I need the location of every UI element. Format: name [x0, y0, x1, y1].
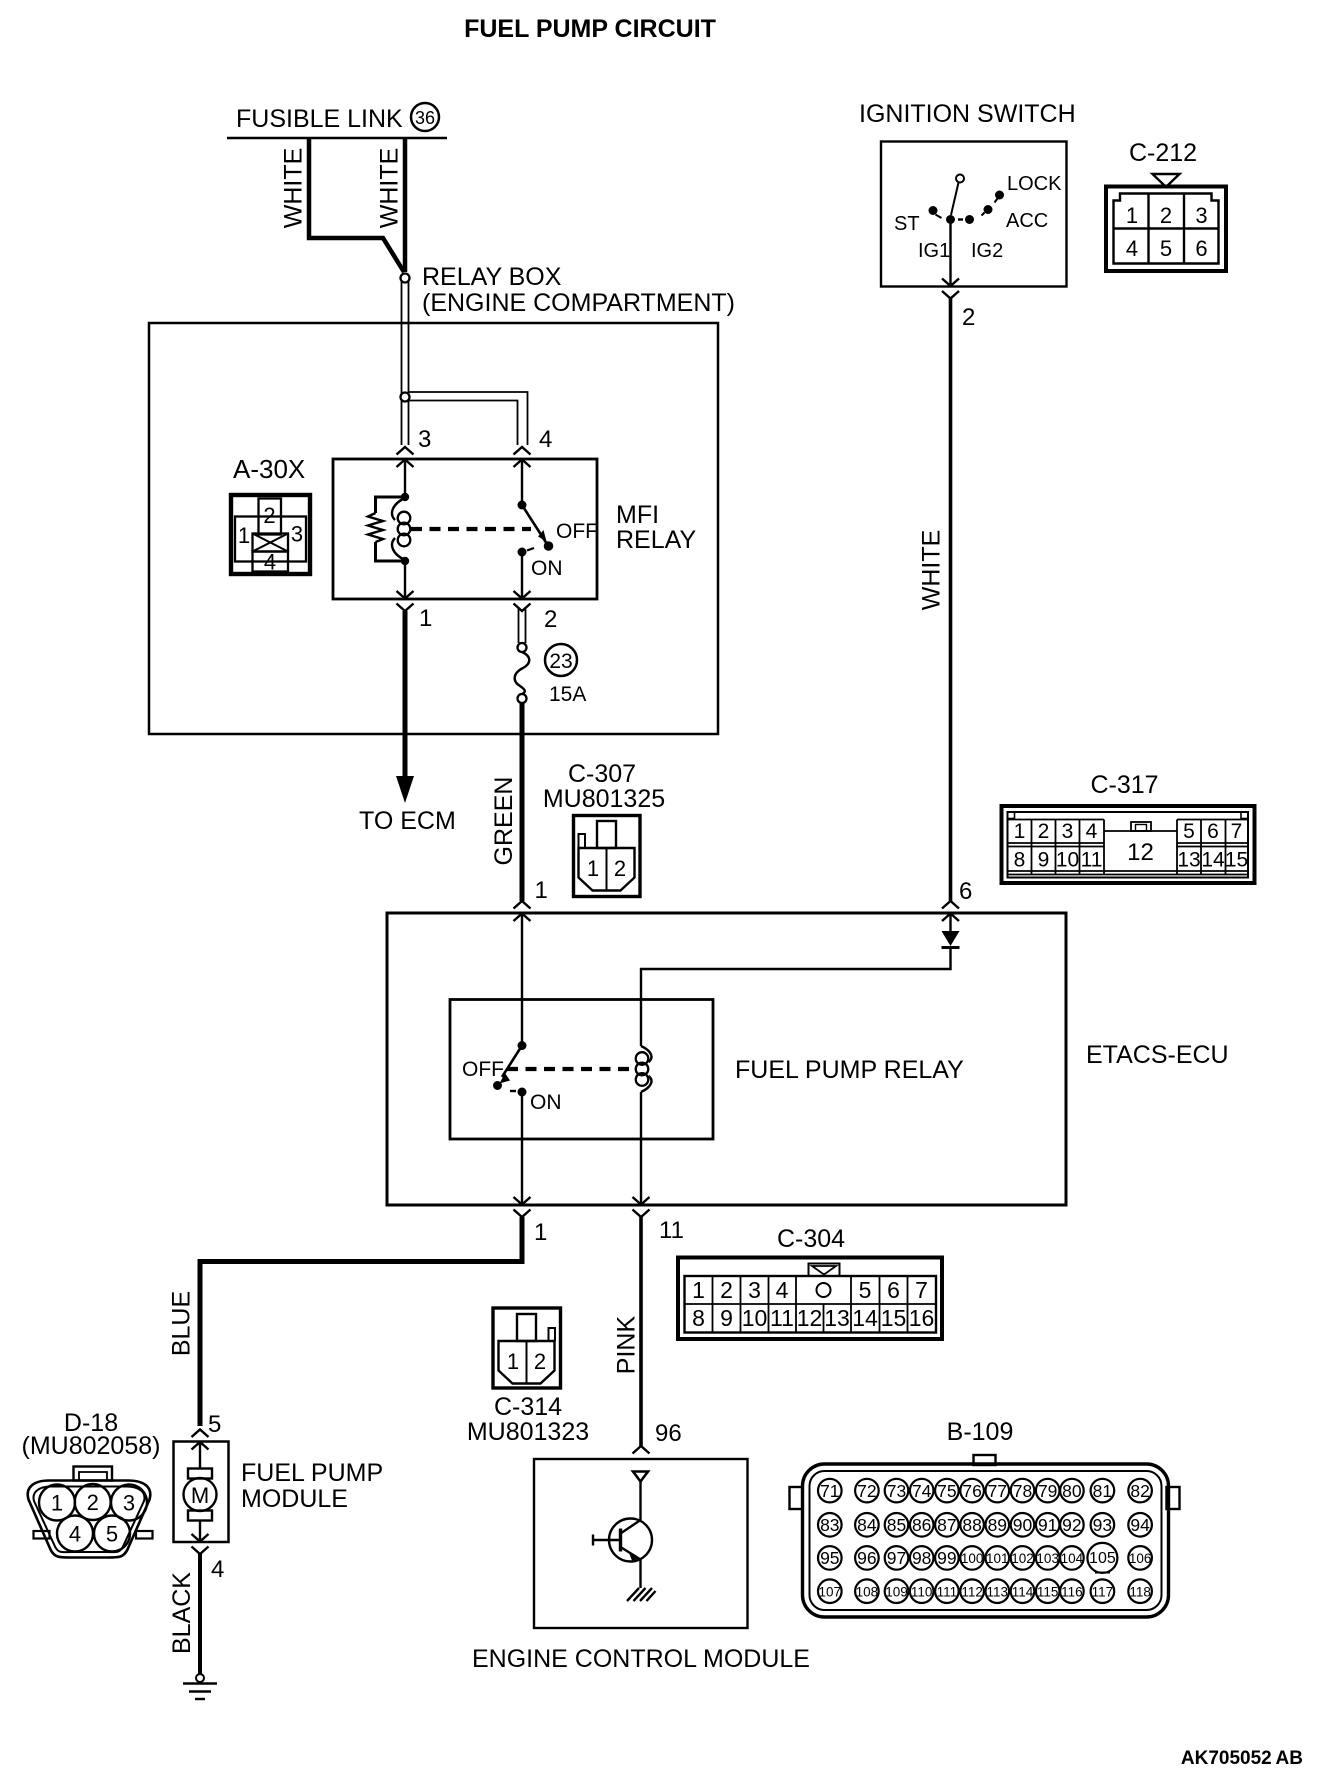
svg-text:4: 4 — [264, 550, 276, 575]
svg-text:BLUE: BLUE — [168, 1291, 196, 1356]
svg-text:ST: ST — [894, 213, 920, 235]
svg-text:AK705052 AB: AK705052 AB — [1181, 1748, 1303, 1769]
svg-text:C-317: C-317 — [1090, 771, 1158, 799]
svg-text:117: 117 — [1092, 1584, 1114, 1599]
svg-text:12: 12 — [797, 1305, 823, 1331]
svg-text:OFF: OFF — [556, 520, 598, 543]
fuse number 23 — [545, 644, 577, 676]
B-109 pin 93 — [1091, 1513, 1115, 1537]
svg-text:RELAY: RELAY — [616, 526, 696, 554]
svg-text:102: 102 — [1011, 1551, 1034, 1566]
svg-text:IG1: IG1 — [918, 240, 950, 262]
wire diode to relay coil — [641, 948, 951, 1001]
C-304 cell grid — [685, 1303, 937, 1305]
node junction circle — [401, 274, 410, 283]
svg-text:ACC: ACC — [1006, 210, 1048, 232]
svg-text:73: 73 — [887, 1481, 906, 1501]
pin 4 arrow — [514, 447, 531, 467]
svg-text:23: 23 — [549, 650, 572, 673]
svg-text:100: 100 — [961, 1551, 984, 1566]
B-109 pin 73 — [885, 1479, 909, 1503]
internal ground symbol — [627, 1588, 656, 1601]
svg-text:A-30X: A-30X — [233, 454, 305, 484]
svg-text:ETACS-ECU: ETACS-ECU — [1086, 1041, 1229, 1069]
svg-text:105: 105 — [1089, 1550, 1116, 1567]
B-109 pin 88 — [960, 1513, 984, 1537]
svg-text:14: 14 — [852, 1305, 878, 1331]
svg-text:1: 1 — [587, 856, 599, 881]
svg-text:6: 6 — [1195, 236, 1207, 261]
svg-text:13: 13 — [824, 1305, 850, 1331]
svg-text:76: 76 — [962, 1481, 981, 1501]
svg-text:77: 77 — [988, 1481, 1007, 1501]
svg-text:3: 3 — [123, 1491, 135, 1516]
ST contact dot — [929, 206, 938, 215]
svg-text:9: 9 — [1038, 849, 1050, 872]
svg-text:10: 10 — [742, 1305, 768, 1331]
svg-text:2: 2 — [962, 304, 975, 331]
svg-text:4: 4 — [69, 1522, 81, 1547]
svg-text:1: 1 — [1126, 203, 1138, 228]
svg-text:103: 103 — [1036, 1551, 1059, 1566]
svg-text:95: 95 — [820, 1548, 839, 1568]
B-109 pin 90 — [1011, 1513, 1035, 1537]
svg-text:89: 89 — [988, 1515, 1007, 1535]
svg-text:104: 104 — [1061, 1551, 1084, 1566]
D-18 pin circles — [39, 1485, 75, 1521]
connector C-212 symbol — [1106, 187, 1226, 272]
svg-text:1: 1 — [507, 1349, 519, 1374]
svg-text:112: 112 — [961, 1584, 983, 1599]
svg-text:4: 4 — [211, 1556, 224, 1583]
svg-text:WHITE: WHITE — [376, 148, 404, 229]
svg-text:96: 96 — [857, 1548, 876, 1568]
svg-text:13: 13 — [1177, 849, 1200, 872]
svg-text:RELAY BOX: RELAY BOX — [422, 263, 562, 291]
relay coil K1 — [640, 1000, 642, 1046]
coil wire bottom — [404, 561, 406, 598]
svg-text:7: 7 — [915, 1277, 928, 1303]
C-304 keying tab — [809, 1264, 840, 1277]
svg-text:8: 8 — [1014, 849, 1026, 872]
svg-text:98: 98 — [912, 1548, 931, 1568]
B-109 pin 108 — [855, 1579, 879, 1603]
svg-text:9: 9 — [720, 1305, 733, 1331]
B-109 pin 110 — [910, 1579, 934, 1603]
transistor Q1 — [609, 1519, 652, 1562]
svg-text:106: 106 — [1129, 1551, 1152, 1566]
B-109 pin 82 — [1128, 1479, 1152, 1503]
C-317 middle cell 12 — [1104, 830, 1177, 832]
svg-text:11: 11 — [659, 1217, 684, 1244]
B-109 pin 71 — [818, 1479, 842, 1503]
resistor R parallel — [376, 497, 406, 513]
svg-text:8: 8 — [692, 1305, 705, 1331]
svg-text:75: 75 — [937, 1481, 956, 1501]
connector C-317 symbol — [1002, 806, 1255, 883]
svg-text:118: 118 — [1129, 1584, 1151, 1599]
B-109 pin 106 — [1128, 1546, 1152, 1570]
wire BLACK — [198, 1554, 202, 1674]
B-109 pin 96 — [855, 1546, 879, 1570]
connector C-307 symbol — [574, 816, 641, 897]
B-109 pin 115 — [1036, 1579, 1060, 1603]
key blade — [951, 183, 959, 216]
B-109 pin 100 — [960, 1546, 984, 1570]
svg-text:MODULE: MODULE — [241, 1485, 348, 1513]
svg-text:88: 88 — [962, 1515, 981, 1535]
C-317 left pin block — [1008, 820, 1249, 875]
svg-text:71: 71 — [820, 1481, 839, 1501]
wire BLUE — [200, 1217, 522, 1426]
relay coil — [392, 498, 405, 560]
svg-text:ON: ON — [530, 1091, 562, 1114]
B-109 pin 87 — [935, 1513, 959, 1537]
emitter wire — [639, 1560, 641, 1589]
svg-text:MU801325: MU801325 — [543, 785, 665, 813]
fuel pump relay box — [450, 1000, 713, 1140]
svg-text:7: 7 — [1231, 820, 1243, 843]
coil bottom junction dot — [401, 557, 409, 565]
switch wire from pin 1 — [521, 915, 523, 1045]
svg-text:1: 1 — [51, 1491, 63, 1516]
B-109 pin 95 — [818, 1546, 842, 1570]
B-109 pin 91 — [1036, 1513, 1060, 1537]
B-109 pin 107 — [818, 1579, 842, 1603]
svg-text:2: 2 — [87, 1490, 99, 1515]
ON contact dot — [518, 1088, 527, 1097]
fuse bottom terminal circle — [518, 694, 527, 703]
svg-text:(ENGINE COMPARTMENT): (ENGINE COMPARTMENT) — [422, 289, 735, 317]
pin 2 arrow — [514, 591, 531, 611]
svg-text:WHITE: WHITE — [280, 148, 308, 229]
svg-text:115: 115 — [1037, 1584, 1059, 1599]
B-109 pin 89 — [986, 1513, 1010, 1537]
ignition switch box — [881, 142, 1067, 287]
svg-text:4: 4 — [1086, 820, 1098, 843]
svg-text:91: 91 — [1038, 1515, 1057, 1535]
FPM pin 5 arrow — [192, 1430, 209, 1450]
svg-text:6: 6 — [887, 1277, 900, 1303]
B-109 pin 72 — [855, 1479, 879, 1503]
svg-text:ON: ON — [531, 557, 563, 580]
svg-text:16: 16 — [909, 1305, 935, 1331]
svg-text:110: 110 — [911, 1584, 933, 1599]
switch blade with arrow — [502, 1046, 522, 1078]
B-109 pin 114 — [1011, 1579, 1035, 1603]
svg-text:116: 116 — [1061, 1584, 1083, 1599]
svg-text:5: 5 — [208, 1411, 221, 1438]
ECM pin 96 arrow — [633, 1446, 650, 1454]
B-109 pin 105 — [1087, 1543, 1117, 1573]
B-109 pin 118 — [1128, 1579, 1152, 1603]
B-109 pin 78 — [1011, 1479, 1035, 1503]
svg-text:(MU802058): (MU802058) — [22, 1432, 161, 1460]
switch ON contact dot — [518, 548, 527, 557]
svg-text:5: 5 — [106, 1522, 118, 1547]
LOCK contact dot — [995, 191, 1004, 200]
svg-text:92: 92 — [1062, 1515, 1081, 1535]
wire MFI pin1 to ECM — [403, 611, 408, 777]
switch top contact dot — [518, 1041, 527, 1050]
B-109 pin 92 — [1060, 1513, 1084, 1537]
fusible link bus line — [227, 137, 447, 140]
B-109 pin 74 — [910, 1479, 934, 1503]
svg-text:109: 109 — [885, 1584, 908, 1599]
B-109 pin 104 — [1060, 1546, 1084, 1570]
svg-text:1: 1 — [238, 523, 250, 548]
svg-text:5: 5 — [1160, 236, 1172, 261]
svg-text:94: 94 — [1130, 1515, 1150, 1535]
svg-text:OFF: OFF — [462, 1058, 504, 1081]
B-109 pin 111 — [935, 1579, 959, 1603]
svg-text:M: M — [191, 1483, 209, 1508]
svg-text:5: 5 — [859, 1277, 872, 1303]
svg-text:MU801323: MU801323 — [467, 1418, 589, 1446]
svg-text:111: 111 — [937, 1584, 958, 1599]
relay box (engine compartment) — [149, 323, 718, 734]
svg-text:1: 1 — [419, 605, 432, 632]
B-109 pin 97 — [885, 1546, 909, 1570]
B-109 pin 75 — [935, 1479, 959, 1503]
connector D-18 symbol — [74, 1467, 113, 1481]
svg-text:12: 12 — [1127, 839, 1154, 866]
svg-text:78: 78 — [1013, 1481, 1032, 1501]
B-109 mark under pin 105 — [1095, 1572, 1110, 1574]
motor M symbol — [199, 1442, 201, 1468]
pin 1 arrow — [397, 591, 414, 611]
C-317 right pin block — [1177, 820, 1248, 847]
svg-text:86: 86 — [912, 1515, 931, 1535]
ETACS pin 11 bottom arrow — [633, 1197, 650, 1217]
wire double-line from node to pin 3 — [401, 282, 403, 445]
svg-text:11: 11 — [770, 1305, 794, 1331]
svg-text:C-212: C-212 — [1129, 139, 1197, 167]
B-109 pin 101 — [986, 1546, 1010, 1570]
internal supply triangle — [633, 1472, 648, 1482]
svg-text:3: 3 — [1195, 203, 1207, 228]
B-109 pin 80 — [1060, 1479, 1084, 1503]
pin 3 arrow — [397, 447, 414, 467]
wire to transistor — [639, 1482, 641, 1521]
B-109 pin 112 — [960, 1579, 984, 1603]
svg-text:2: 2 — [720, 1277, 733, 1303]
svg-text:80: 80 — [1062, 1481, 1082, 1501]
svg-text:WHITE: WHITE — [918, 530, 946, 611]
svg-text:10: 10 — [1056, 849, 1079, 872]
B-109 pin 76 — [960, 1479, 984, 1503]
switch wire top — [521, 460, 523, 505]
svg-text:15A: 15A — [549, 683, 586, 706]
B-109 pin 83 — [818, 1513, 842, 1537]
wire white right — [403, 138, 408, 272]
B-109 pin 117 — [1091, 1579, 1115, 1603]
B-109 pin 94 — [1128, 1513, 1152, 1537]
B-109 pin 102 — [1011, 1546, 1035, 1570]
svg-text:113: 113 — [987, 1584, 1009, 1599]
svg-text:6: 6 — [959, 878, 972, 905]
switch wire bottom — [521, 552, 523, 598]
connector A-30X symbol — [231, 495, 310, 574]
svg-text:2: 2 — [614, 856, 626, 881]
svg-text:B-109: B-109 — [947, 1418, 1014, 1446]
svg-text:C-314: C-314 — [494, 1393, 562, 1421]
ETACS pin 1 arrow — [514, 901, 531, 921]
svg-text:36: 36 — [415, 108, 435, 128]
svg-text:107: 107 — [819, 1584, 842, 1599]
connector C-304 symbol — [678, 1258, 942, 1340]
fuse top terminal circle — [518, 643, 527, 652]
svg-text:114: 114 — [1012, 1584, 1034, 1599]
svg-text:4: 4 — [776, 1277, 789, 1303]
svg-text:FUEL PUMP: FUEL PUMP — [241, 1459, 383, 1487]
svg-text:3: 3 — [1062, 820, 1074, 843]
ACC contact dot — [984, 205, 993, 214]
coil wire top — [404, 460, 406, 497]
C-212 triangle mark — [1153, 174, 1180, 187]
B-109 pin 84 — [855, 1513, 879, 1537]
wire PINK — [639, 1217, 643, 1446]
svg-text:2: 2 — [534, 1349, 546, 1374]
svg-text:ENGINE CONTROL MODULE: ENGINE CONTROL MODULE — [472, 1645, 810, 1673]
B-109 pin 86 — [910, 1513, 934, 1537]
svg-text:3: 3 — [418, 426, 431, 453]
wire WHITE ignition to ETACS — [949, 297, 953, 901]
switch blade — [522, 505, 547, 544]
engine control module box — [534, 1459, 748, 1628]
coil top junction dot — [401, 493, 409, 501]
dashed link line — [507, 1067, 630, 1071]
switch output wire — [949, 220, 951, 285]
svg-text:79: 79 — [1038, 1481, 1057, 1501]
connector C-314 symbol — [493, 1308, 561, 1388]
svg-text:1: 1 — [534, 1219, 547, 1246]
svg-text:99: 99 — [937, 1548, 956, 1568]
fuel pump module box — [174, 1442, 229, 1543]
wire double-line branch to pin 4 — [409, 392, 528, 445]
svg-text:81: 81 — [1093, 1481, 1112, 1501]
svg-text:1: 1 — [535, 877, 548, 904]
svg-text:11: 11 — [1081, 849, 1103, 872]
key pivot circle — [956, 175, 964, 183]
svg-text:84: 84 — [857, 1515, 877, 1535]
svg-text:15: 15 — [1225, 849, 1248, 872]
svg-text:15: 15 — [881, 1305, 907, 1331]
svg-text:101: 101 — [986, 1551, 1009, 1566]
IG2 contact dot — [965, 215, 974, 224]
ground symbol — [183, 1682, 217, 1684]
fusible link number 36 — [411, 103, 439, 131]
svg-text:83: 83 — [820, 1515, 839, 1535]
B-109 pin 98 — [910, 1546, 934, 1570]
common contact dot — [946, 215, 955, 224]
B-109 pin 81 — [1091, 1479, 1115, 1503]
wire GREEN — [520, 703, 525, 901]
svg-text:TO ECM: TO ECM — [359, 807, 456, 835]
connector B-109 symbol — [974, 1455, 996, 1465]
switch wire bottom — [521, 1092, 523, 1204]
svg-text:3: 3 — [748, 1277, 761, 1303]
svg-text:87: 87 — [937, 1515, 956, 1535]
svg-text:82: 82 — [1130, 1481, 1149, 1501]
fuse element squiggle — [515, 652, 530, 694]
svg-text:1: 1 — [1014, 820, 1026, 843]
svg-text:GREEN: GREEN — [490, 777, 518, 866]
svg-text:2: 2 — [1160, 203, 1172, 228]
svg-text:MFI: MFI — [616, 501, 659, 529]
svg-text:3: 3 — [291, 522, 303, 547]
FPM pin 4 arrow — [192, 1534, 209, 1554]
svg-text:93: 93 — [1093, 1515, 1112, 1535]
B-109 pin 79 — [1036, 1479, 1060, 1503]
svg-text:C-307: C-307 — [568, 760, 636, 788]
svg-text:108: 108 — [856, 1584, 879, 1599]
svg-text:90: 90 — [1013, 1515, 1033, 1535]
svg-text:85: 85 — [887, 1515, 906, 1535]
ignition pin 2 arrow — [942, 279, 959, 299]
wire double-line below pin 2 — [519, 607, 526, 643]
svg-text:IG2: IG2 — [971, 240, 1003, 262]
arrow TO ECM — [396, 776, 414, 803]
B-109 pin 116 — [1060, 1579, 1084, 1603]
svg-text:IGNITION SWITCH: IGNITION SWITCH — [859, 100, 1076, 128]
OFF contact dot — [493, 1081, 502, 1090]
svg-text:LOCK: LOCK — [1007, 173, 1062, 195]
diode D1 — [949, 915, 951, 931]
B-109 pin 77 — [986, 1479, 1010, 1503]
wire white left — [309, 138, 404, 272]
svg-text:14: 14 — [1201, 849, 1225, 872]
svg-text:5: 5 — [1183, 820, 1195, 843]
svg-text:97: 97 — [887, 1548, 906, 1568]
svg-text:6: 6 — [1207, 820, 1219, 843]
svg-text:72: 72 — [857, 1481, 876, 1501]
node branch circle — [401, 393, 410, 402]
B-109 pin 99 — [935, 1546, 959, 1570]
svg-text:2: 2 — [1038, 820, 1050, 843]
svg-text:74: 74 — [912, 1481, 932, 1501]
svg-text:2: 2 — [263, 503, 275, 528]
dashed link line — [411, 527, 531, 531]
svg-text:FUEL PUMP CIRCUIT: FUEL PUMP CIRCUIT — [464, 15, 716, 43]
ETACS-ECU box — [387, 913, 1066, 1205]
B-109 pin 109 — [885, 1579, 909, 1603]
C-304 circle mark — [817, 1283, 831, 1297]
svg-text:FUSIBLE LINK: FUSIBLE LINK — [236, 105, 403, 133]
B-109 pin 113 — [986, 1579, 1010, 1603]
svg-text:FUEL PUMP RELAY: FUEL PUMP RELAY — [735, 1056, 964, 1084]
svg-text:4: 4 — [1126, 236, 1138, 261]
svg-text:PINK: PINK — [613, 1316, 641, 1375]
B-109 pin 103 — [1036, 1546, 1060, 1570]
svg-text:4: 4 — [539, 426, 552, 453]
svg-text:96: 96 — [655, 1420, 682, 1447]
svg-text:BLACK: BLACK — [168, 1572, 196, 1654]
ETACS pin 6 arrow — [942, 901, 959, 921]
switch top contact dot — [518, 501, 527, 510]
MFI relay box — [333, 459, 597, 599]
ETACS pin 1 bottom arrow — [514, 1197, 531, 1217]
svg-text:2: 2 — [544, 606, 557, 633]
svg-text:C-304: C-304 — [777, 1225, 845, 1253]
ground terminal circle — [196, 1674, 204, 1682]
svg-text:1: 1 — [692, 1277, 705, 1303]
B-109 pin 85 — [885, 1513, 909, 1537]
